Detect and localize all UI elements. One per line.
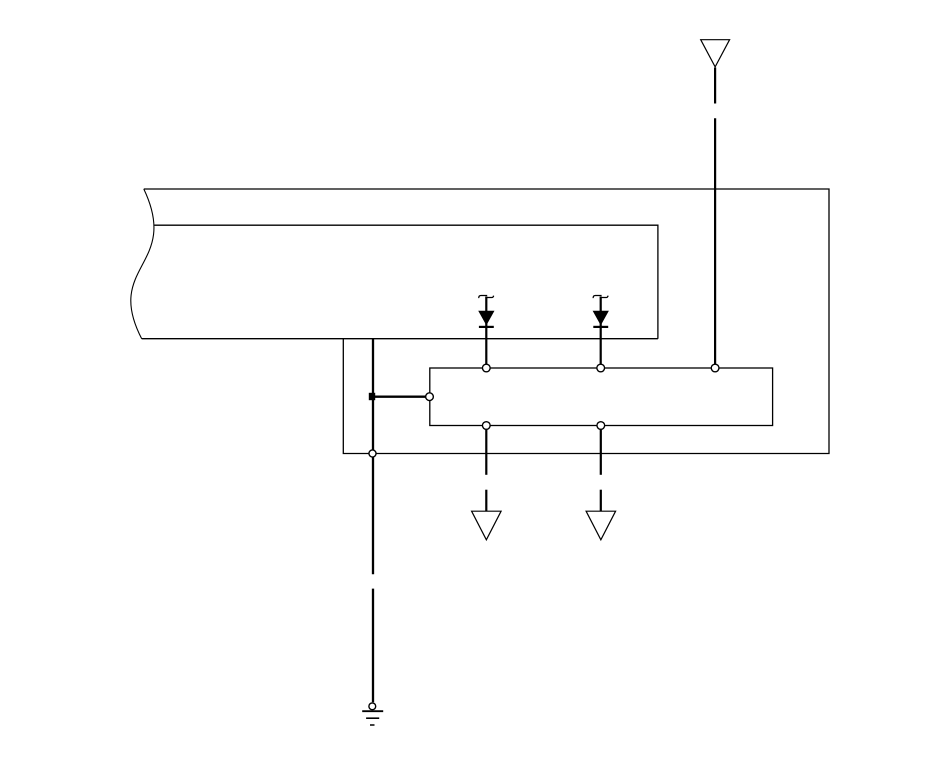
junction (solid square) [369,393,375,400]
pin terminal top x=600.7 [597,364,605,372]
pigtail squiggle D1 [479,296,494,299]
wire: pin drop below box at x=486, lower segment [485,490,487,512]
wire: ground trunk upper (x=373) [372,339,374,454]
ground bar 3 [370,724,375,726]
wire: pin drop below box at x=600.8, upper segment [600,427,602,475]
pin terminal bottom x=600.8 [597,422,605,430]
pin terminal top x=486 [482,364,490,372]
wire: diode D1 branch (x=486) [485,297,487,365]
pin terminal left of box [426,393,434,401]
ground node circle [369,703,376,710]
ground bar 1 [362,710,383,712]
harness outer box (connector/module outline, broken at left) [144,189,829,454]
wire: top supply drop, upper segment [714,68,716,104]
diode D1 cathode bar [479,326,494,328]
connector triangle (supply, off-page) [701,40,730,67]
wire: top supply drop, lower segment to pin [714,118,716,364]
diode D2 cathode bar [593,326,608,328]
wire: pin drop below box at x=600.8, lower segment [600,490,602,512]
wire: diode D2 branch (x=600.7) [600,297,602,365]
component U1 box [430,368,773,426]
wire: ground trunk middle [372,454,374,575]
diode D1 (cathode down) [479,311,494,324]
diode D2 (cathode down) [593,311,608,324]
ground bar 2 [366,717,379,719]
pin terminal top x=715.1 [711,364,719,372]
break wave (left torn edge) [131,189,154,339]
wire: junction to left pin of component [373,396,427,398]
pin terminal bottom x=486 [482,422,490,430]
wire: ground trunk lower [372,589,374,703]
connector triangle (off-page, x=486) [472,511,502,540]
node: trunk crossing outer box bottom [369,450,376,457]
pigtail squiggle D2 [593,296,608,299]
connector triangle (off-page, x=600.8) [586,511,616,540]
harness inner box (cable bundle outline, broken at left) [142,225,658,339]
wire: pin drop below box at x=486, upper segment [485,427,487,475]
